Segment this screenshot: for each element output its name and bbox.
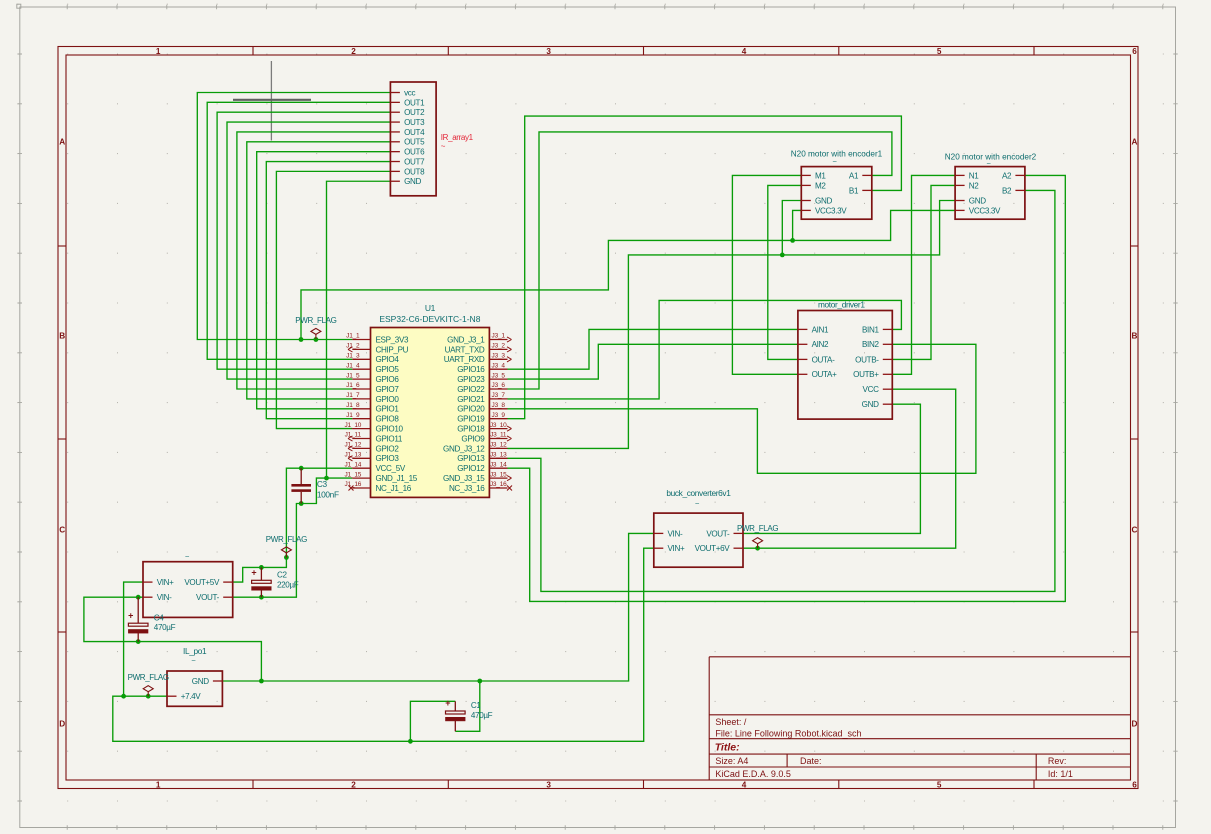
pin N2 of motor encoder2 (955, 184, 965, 186)
connector IR_array1 (390, 82, 436, 196)
pin J1_1 ESP_3V3 of U1 (352, 339, 370, 341)
svg-text:KiCad E.D.A. 9.0.5: KiCad E.D.A. 9.0.5 (715, 769, 791, 779)
svg-text:J3_2: J3_2 (492, 343, 506, 350)
wire B2 to GPIO13 (508, 190, 1055, 591)
pin VIN+ of 5V regulator (143, 581, 153, 583)
pin VIN- of buck_converter6v1 (654, 532, 664, 534)
wire N1 to OUTB+ (892, 175, 955, 374)
svg-text:OUTB+: OUTB+ (853, 370, 879, 379)
pin OUT6 of IR_array1 (390, 151, 400, 153)
battery IL_po1 (167, 671, 222, 706)
junction PWR_FLAG1 (314, 337, 319, 342)
svg-text:J3_16: J3_16 (490, 481, 507, 488)
pin GND of IR_array1 (390, 180, 400, 182)
svg-text:Size: A4: Size: A4 (715, 756, 748, 766)
svg-text:IR_array1: IR_array1 (441, 133, 474, 142)
pin BIN1 of motor_driver1 (883, 328, 893, 330)
module motor_driver1 (798, 311, 892, 420)
pin J3_13 GPIO13 of U1 (489, 457, 507, 459)
svg-text:File: Line Following Robot.kic: File: Line Following Robot.kicad_sch (715, 729, 861, 739)
svg-text:C: C (59, 526, 65, 535)
wire A1 to GPIO22 (508, 132, 892, 389)
svg-text:OUT5: OUT5 (404, 138, 425, 147)
svg-text:GPIO0: GPIO0 (376, 395, 400, 404)
svg-text:GPIO22: GPIO22 (457, 385, 485, 394)
wire GND_J1_15 net (233, 478, 353, 597)
pin J3_15 GND_J3_15 of U1 (489, 477, 507, 479)
svg-text:VIN+: VIN+ (157, 578, 174, 587)
pin J3_14 GPIO12 of U1 (489, 467, 507, 469)
svg-text:IL_po1: IL_po1 (183, 646, 207, 656)
svg-text:J3_4: J3_4 (492, 362, 506, 369)
MCU U1 ESP32-C6-DEVKITC-1-N8 (371, 328, 490, 498)
svg-text:J1_2: J1_2 (346, 343, 360, 350)
graphic line vertical (270, 61, 272, 141)
wire motor2 GND to GND_J3_12 (508, 201, 956, 449)
pin VIN- of 5V regulator (143, 596, 153, 598)
svg-text:B: B (59, 332, 65, 341)
module N20 motor with encoder1 (801, 167, 872, 220)
svg-text:buck_converter6v1: buck_converter6v1 (666, 488, 731, 498)
pin J1_8 GPIO1 of U1 (352, 408, 370, 410)
pin vcc of IR_array1 (390, 92, 400, 94)
svg-text:VCC: VCC (863, 385, 880, 394)
svg-text:VOUT-: VOUT- (706, 529, 730, 538)
svg-text:J1_14: J1_14 (344, 461, 361, 468)
svg-text:J3_6: J3_6 (492, 382, 506, 389)
wire GPIO16 to AIN1 (508, 329, 798, 369)
svg-text:A: A (1132, 138, 1138, 147)
svg-text:BIN2: BIN2 (862, 340, 879, 349)
pin OUTA+ of motor_driver1 (798, 373, 808, 375)
junction C4 top (136, 595, 141, 600)
svg-text:GPIO16: GPIO16 (457, 365, 485, 374)
wire OUT4 to GPIO7 (237, 132, 391, 389)
svg-text:U1: U1 (425, 303, 436, 313)
svg-text:D: D (59, 720, 65, 729)
pin J3_12 GND_J3_12 of U1 (489, 447, 507, 449)
pin J3_3 UART_RXD of U1 (489, 358, 507, 360)
svg-text:OUT1: OUT1 (404, 98, 425, 107)
pin J1_10 GPIO10 of U1 (352, 428, 370, 430)
wire OUT5 to GPIO0 (247, 142, 391, 399)
pin VCC3.3V of motor encoder1 (801, 209, 811, 211)
pin J1_12 GPIO2 of U1 (352, 447, 370, 449)
svg-text:GPIO7: GPIO7 (376, 385, 400, 394)
svg-text:GPIO10: GPIO10 (376, 425, 404, 434)
svg-text:GPIO3: GPIO3 (376, 454, 400, 463)
junction C1 plus on 7.4V rail (408, 739, 413, 744)
pin J3_7 GPIO21 of U1 (489, 398, 507, 400)
sheet frame (58, 47, 1138, 789)
wire 3V3 distribution (301, 210, 955, 339)
svg-text:220µF: 220µF (277, 580, 299, 589)
svg-text:Title:: Title: (715, 741, 740, 753)
pin M1 of motor encoder1 (801, 174, 811, 176)
svg-text:J1_1: J1_1 (346, 333, 360, 340)
pin J1_14 VCC_5V of U1 (352, 467, 370, 469)
svg-text:C3: C3 (317, 479, 328, 489)
pin A1 of motor encoder1 (862, 174, 872, 176)
junction C3 bottom (299, 501, 304, 506)
junction GND rail at IL_po1 (259, 679, 264, 684)
svg-text:J1_4: J1_4 (346, 362, 360, 369)
wire VIN- 5V module to GND (84, 597, 262, 681)
svg-text:C2: C2 (277, 571, 287, 580)
svg-text:GPIO11: GPIO11 (376, 434, 403, 443)
junction motor GND rail (780, 253, 785, 258)
svg-text:GPIO21: GPIO21 (457, 395, 485, 404)
svg-text:VCC_5V: VCC_5V (376, 464, 406, 473)
wire OUT1 to GPIO4 (207, 102, 390, 359)
wire GND rail to buck VIN- (222, 533, 653, 681)
pin VOUT- of buck_converter6v1 (734, 532, 744, 534)
pin OUT4 of IR_array1 (390, 131, 400, 133)
title block (709, 657, 1130, 780)
capacitor C4 470uF (137, 597, 139, 623)
svg-text:GPIO1: GPIO1 (376, 405, 400, 414)
junction motor VCC rail (790, 238, 795, 243)
svg-text:J1_5: J1_5 (346, 372, 360, 379)
svg-text:ESP_3V3: ESP_3V3 (376, 335, 409, 344)
junction VIN+ taps 7.4V (121, 694, 126, 699)
pin A2 of motor encoder2 (1015, 174, 1025, 176)
svg-text:GND_J3_1: GND_J3_1 (447, 335, 485, 344)
wire C1 minus lead (455, 681, 480, 731)
junction C2 bottom (259, 595, 264, 600)
svg-text:N20 motor with encoder1: N20 motor with encoder1 (791, 150, 883, 159)
svg-text:OUT2: OUT2 (404, 108, 425, 117)
svg-text:AIN1: AIN1 (812, 325, 829, 334)
pin J1_3 GPIO4 of U1 (352, 358, 370, 360)
svg-text:OUT3: OUT3 (404, 118, 425, 127)
pin VOUT+6V of buck_converter6v1 (734, 547, 744, 549)
svg-text:100nF: 100nF (317, 489, 339, 499)
svg-text:J1_7: J1_7 (346, 392, 360, 399)
svg-text:J1_16: J1_16 (344, 481, 361, 488)
svg-text:470µF: 470µF (471, 711, 493, 720)
graphic line horizontal (233, 99, 311, 101)
pin +7.4V of IL_po1 (167, 695, 177, 697)
svg-text:B: B (1132, 332, 1138, 341)
wire driver GND to VOUT- (743, 404, 920, 533)
svg-text:GND: GND (404, 177, 421, 186)
pin J1_4 GPIO5 of U1 (352, 368, 370, 370)
svg-text:J3_7: J3_7 (492, 392, 506, 399)
wire IR GND down (327, 181, 391, 478)
svg-text:J1_8: J1_8 (346, 402, 360, 409)
svg-text:A1: A1 (849, 171, 859, 180)
wire M1 to OUTA+ (732, 175, 801, 374)
junction C1 minus on GND rail (477, 679, 482, 684)
svg-text:GPIO19: GPIO19 (457, 415, 485, 424)
svg-text:+: + (445, 698, 450, 708)
pin OUT1 of IR_array1 (390, 101, 400, 103)
svg-text:GND: GND (862, 400, 879, 409)
wire OUT7 to GPIO8 (266, 162, 390, 419)
pin VOUT- of 5V regulator (223, 596, 233, 598)
svg-text:N1: N1 (969, 171, 979, 180)
pin J1_2 CHIP_PU of U1 (352, 348, 370, 350)
power flag PWR_FLAG4 on 6V (753, 538, 763, 549)
svg-text:D: D (1132, 720, 1138, 729)
svg-text:NC_J3_16: NC_J3_16 (449, 484, 485, 493)
junction C3 top (299, 466, 304, 471)
svg-text:A2: A2 (1002, 171, 1012, 180)
svg-text:C1: C1 (471, 701, 481, 710)
svg-text:J3_11: J3_11 (490, 432, 507, 439)
svg-text:GND: GND (192, 677, 209, 686)
junction IR GND joins GND_J1_15 (324, 476, 329, 481)
svg-text:OUTB-: OUTB- (855, 355, 879, 364)
svg-text:GPIO8: GPIO8 (376, 415, 400, 424)
wire N2 to OUTB- (892, 185, 955, 359)
power flag PWR_FLAG3 on 7.4V (143, 686, 153, 697)
svg-text:NC_J1_16: NC_J1_16 (376, 484, 412, 493)
pin J1_13 GPIO3 of U1 (352, 457, 370, 459)
svg-text:+7.4V: +7.4V (181, 692, 202, 701)
junction C4 bottom (136, 639, 141, 644)
svg-text:OUT6: OUT6 (404, 148, 425, 157)
svg-text:GPIO13: GPIO13 (457, 454, 485, 463)
svg-text:OUT8: OUT8 (404, 167, 425, 176)
pin J3_16 NC_J3_16 of U1 (489, 487, 507, 489)
svg-text:M2: M2 (815, 181, 826, 190)
wire A2 to GPIO12 (508, 175, 1066, 601)
svg-text:PWR_FLAG: PWR_FLAG (266, 535, 307, 544)
pin J3_1 GND_J3_1 of U1 (489, 339, 507, 341)
module buck_converter6v1 (654, 513, 743, 567)
pin J3_5 GPIO23 of U1 (489, 378, 507, 380)
wire OUT3 to GPIO6 (227, 122, 390, 379)
power flag PWR_FLAG2 on 5V (281, 547, 291, 558)
svg-text:GPIO12: GPIO12 (457, 464, 485, 473)
svg-text:J3_1: J3_1 (492, 333, 506, 340)
pin J1_15 GND_J1_15 of U1 (352, 477, 370, 479)
pin OUTB- of motor_driver1 (883, 358, 893, 360)
svg-text:GPIO5: GPIO5 (376, 365, 400, 374)
pin J3_8 GPIO20 of U1 (489, 408, 507, 410)
svg-text:470µF: 470µF (154, 623, 176, 632)
module N20 motor with encoder2 (955, 167, 1025, 220)
capacitor C2 220uF (260, 567, 262, 580)
wire vcc to ESP_3V3 (197, 93, 390, 340)
svg-text:GND_J3_12: GND_J3_12 (443, 444, 485, 453)
svg-text:VOUT-: VOUT- (196, 593, 220, 602)
svg-text:VIN-: VIN- (668, 529, 683, 538)
pin J3_6 GPIO22 of U1 (489, 388, 507, 390)
wire motor1 VCC3.3V (793, 210, 802, 240)
svg-text:J1_9: J1_9 (346, 412, 360, 419)
capacitor C3 100nF (300, 468, 302, 484)
svg-text:PWR_FLAG: PWR_FLAG (128, 673, 169, 682)
wire motor1 GND (782, 201, 801, 255)
svg-text:VCC3.3V: VCC3.3V (815, 206, 847, 215)
junction PWR_FLAG3 (146, 694, 151, 699)
svg-text:GPIO20: GPIO20 (457, 405, 485, 414)
wire driver VCC to VOUT+6V (743, 389, 956, 548)
svg-text:J3_13: J3_13 (490, 452, 507, 459)
junction PWR_FLAG4 (755, 546, 760, 551)
svg-text:J3_12: J3_12 (490, 442, 507, 449)
svg-text:GND_J3_15: GND_J3_15 (443, 474, 485, 483)
svg-text:vcc: vcc (404, 88, 415, 97)
svg-text:B1: B1 (849, 186, 859, 195)
svg-text:Date:: Date: (800, 756, 822, 766)
wire GPIO21 to BIN1 (508, 300, 902, 399)
svg-text:J3_3: J3_3 (492, 353, 506, 360)
junction C2 top (259, 565, 264, 570)
pin OUT8 of IR_array1 (390, 170, 400, 172)
svg-text:~: ~ (441, 142, 446, 151)
pin OUTA- of motor_driver1 (798, 358, 808, 360)
svg-text:J3_14: J3_14 (490, 461, 507, 468)
wire +7.4V rail to buck VIN+ (113, 548, 654, 741)
pin B2 of motor encoder2 (1015, 189, 1025, 191)
junction PWR_FLAG2 (284, 555, 289, 560)
svg-text:J3_8: J3_8 (492, 402, 506, 409)
wire M2 to OUTA- (768, 185, 802, 359)
svg-text:M1: M1 (815, 171, 826, 180)
svg-text:J3_9: J3_9 (492, 412, 506, 419)
pin J3_9 GPIO19 of U1 (489, 418, 507, 420)
svg-text:N20 motor with encoder2: N20 motor with encoder2 (945, 153, 1037, 162)
svg-text:ESP32-C6-DEVKITC-1-N8: ESP32-C6-DEVKITC-1-N8 (379, 314, 480, 324)
svg-text:J3_15: J3_15 (490, 471, 507, 478)
svg-text:Sheet: /: Sheet: / (715, 717, 747, 727)
wire OUT2 to GPIO5 (217, 112, 390, 369)
pin J1_7 GPIO0 of U1 (352, 398, 370, 400)
pin OUT2 of IR_array1 (390, 111, 400, 113)
svg-text:UART_TXD: UART_TXD (445, 345, 485, 354)
svg-text:GPIO9: GPIO9 (461, 434, 485, 443)
svg-text:OUTA-: OUTA- (812, 355, 835, 364)
svg-text:VOUT+5V: VOUT+5V (184, 578, 220, 587)
svg-text:+: + (128, 610, 133, 620)
svg-text:Id: 1/1: Id: 1/1 (1048, 769, 1073, 779)
capacitor C1 470uF (454, 701, 456, 711)
svg-text:GPIO4: GPIO4 (376, 355, 400, 364)
wire VCC_5V net (233, 468, 353, 582)
pin OUT5 of IR_array1 (390, 141, 400, 143)
wire C1 plus lead (410, 701, 455, 741)
pin OUT7 of IR_array1 (390, 161, 400, 163)
pin VCC of motor_driver1 (883, 388, 893, 390)
svg-text:VIN+: VIN+ (668, 544, 685, 553)
svg-text:BIN1: BIN1 (862, 325, 879, 334)
wire OUT8 to GPIO10 (276, 171, 390, 428)
svg-text:PWR_FLAG: PWR_FLAG (295, 316, 336, 325)
pin J3_10 GPIO18 of U1 (489, 428, 507, 430)
svg-text:OUTA+: OUTA+ (812, 370, 837, 379)
pin GND of motor encoder2 (955, 200, 965, 202)
pin J1_16 NC_J1_16 of U1 (352, 487, 370, 489)
wire GPIO23 to AIN2 (508, 344, 798, 379)
svg-text:GPIO23: GPIO23 (457, 375, 485, 384)
svg-text:GPIO2: GPIO2 (376, 444, 400, 453)
svg-text:VOUT+6V: VOUT+6V (695, 544, 731, 553)
pin GND of IL_po1 (213, 680, 223, 682)
svg-text:C: C (1132, 526, 1138, 535)
svg-text:J1_13: J1_13 (344, 452, 361, 459)
pin J3_11 GPIO9 of U1 (489, 438, 507, 440)
svg-text:B2: B2 (1002, 186, 1012, 195)
wire VIN+ 5V module (124, 582, 143, 696)
svg-text:GND: GND (969, 196, 986, 205)
svg-text:GND_J1_15: GND_J1_15 (376, 474, 418, 483)
pin B1 of motor encoder1 (862, 189, 872, 191)
svg-text:J1_3: J1_3 (346, 353, 360, 360)
svg-text:J1_10: J1_10 (344, 422, 361, 429)
svg-text:C4: C4 (154, 613, 164, 622)
svg-text:J3_10: J3_10 (490, 422, 507, 429)
pin J3_4 GPIO16 of U1 (489, 368, 507, 370)
junction 3V3 at ESP_3V3 (299, 337, 304, 342)
pin M2 of motor encoder1 (801, 184, 811, 186)
pin AIN1 of motor_driver1 (798, 328, 808, 330)
svg-text:VCC3.3V: VCC3.3V (969, 206, 1001, 215)
svg-text:J1_15: J1_15 (344, 471, 361, 478)
power flag PWR_FLAG1 on 3V3 (311, 328, 321, 339)
pin J1_6 GPIO7 of U1 (352, 388, 370, 390)
pin GND of motor_driver1 (883, 403, 893, 405)
svg-text:AIN2: AIN2 (812, 340, 829, 349)
svg-text:UART_RXD: UART_RXD (444, 355, 485, 364)
svg-text:Rev:: Rev: (1048, 756, 1067, 766)
wire GPIO20 to BIN2 (508, 344, 976, 473)
svg-text:OUT4: OUT4 (404, 128, 425, 137)
wire B1 to GPIO19 (508, 116, 902, 419)
pin AIN2 of motor_driver1 (798, 343, 808, 345)
pin VOUT+5V of 5V regulator (223, 581, 233, 583)
pin GND of motor encoder1 (801, 200, 811, 202)
module 5V regulator (143, 562, 233, 618)
svg-text:A: A (59, 138, 65, 147)
svg-text:J1_12: J1_12 (344, 442, 361, 449)
pin N1 of motor encoder2 (955, 174, 965, 176)
svg-text:J1_6: J1_6 (346, 382, 360, 389)
pin VIN+ of buck_converter6v1 (654, 547, 664, 549)
pin J3_2 UART_TXD of U1 (489, 348, 507, 350)
svg-text:J3_5: J3_5 (492, 372, 506, 379)
svg-text:OUT7: OUT7 (404, 157, 425, 166)
pin J1_9 GPIO8 of U1 (352, 418, 370, 420)
svg-text:N2: N2 (969, 181, 979, 190)
svg-text:GPIO18: GPIO18 (457, 425, 485, 434)
svg-text:+: + (251, 568, 256, 578)
pin J1_5 GPIO6 of U1 (352, 378, 370, 380)
pin OUT3 of IR_array1 (390, 121, 400, 123)
svg-text:J1_11: J1_11 (345, 432, 362, 439)
pin BIN2 of motor_driver1 (883, 343, 893, 345)
svg-text:VIN-: VIN- (157, 593, 172, 602)
svg-text:GPIO6: GPIO6 (376, 375, 400, 384)
svg-text:PWR_FLAG: PWR_FLAG (737, 524, 778, 533)
pin VCC3.3V of motor encoder2 (955, 209, 965, 211)
wire OUT6 to GPIO1 (257, 152, 391, 409)
svg-text:GND: GND (815, 196, 832, 205)
svg-text:CHIP_PU: CHIP_PU (376, 345, 409, 354)
pin OUTB+ of motor_driver1 (883, 373, 893, 375)
pin J1_11 GPIO11 of U1 (352, 438, 370, 440)
svg-text:motor_driver1: motor_driver1 (818, 300, 865, 310)
